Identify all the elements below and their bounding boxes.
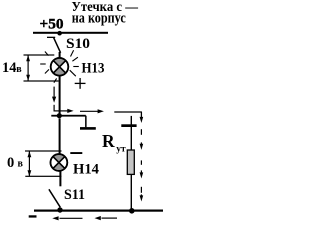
svg-text:ут: ут bbox=[116, 145, 126, 155]
wire Rut bottom lead bbox=[131, 174, 132, 210]
dimension bracket 0 v bbox=[25, 150, 62, 177]
wire return current arrow 2 bbox=[95, 216, 118, 220]
svg-text:Н14: Н14 bbox=[73, 162, 99, 178]
label minus terminal bbox=[29, 215, 37, 217]
wire H14 to S11 bbox=[59, 171, 61, 186]
wire Rut top lead bbox=[131, 116, 132, 150]
switch S10 blade bbox=[54, 38, 61, 53]
svg-text:на корпус: на корпус bbox=[72, 10, 126, 26]
resistor Rut body bbox=[127, 150, 134, 174]
wire return current arrow 1 bbox=[52, 216, 82, 220]
lamp H13 bbox=[51, 58, 69, 76]
node junction dot on +50 bus bbox=[57, 31, 62, 36]
svg-text:в: в bbox=[18, 159, 24, 170]
svg-text:0: 0 bbox=[7, 155, 14, 171]
node bottom junction dot S11 bbox=[57, 207, 62, 212]
wire H13 to midpoint junction bbox=[59, 76, 61, 113]
switch S10 fixed contact tick bbox=[47, 37, 55, 38]
svg-text:Н13: Н13 bbox=[82, 61, 105, 77]
wire bottom minus bus bbox=[34, 210, 163, 212]
svg-text:+50: +50 bbox=[40, 16, 64, 32]
wire current path top right segment bbox=[114, 112, 143, 123]
wire current path corner and right arrow 1 bbox=[54, 105, 74, 113]
wire S10 to lamp H13 bbox=[59, 52, 61, 58]
wire midpoint to chassis bbox=[51, 115, 86, 117]
node junction dot Rut on bus bbox=[129, 208, 135, 214]
ground chassis symbol right bbox=[121, 124, 136, 127]
wire current path arrow down beside H13 bbox=[52, 87, 56, 103]
wire current path right arrow 2 bbox=[80, 109, 104, 113]
svg-text:R: R bbox=[102, 131, 115, 151]
arrowheads on dashed leak path bbox=[140, 144, 144, 150]
svg-text:S11: S11 bbox=[64, 187, 85, 203]
label minus polarity mark bbox=[70, 152, 82, 154]
lamp H14 bbox=[51, 154, 68, 171]
svg-text:в: в bbox=[16, 64, 22, 75]
wire top bus +50 bbox=[33, 32, 108, 34]
dimension bracket 14 v bbox=[24, 54, 59, 81]
wire junction to lamp H14 bbox=[59, 118, 61, 154]
lamp H13 glow rays bbox=[40, 50, 79, 82]
wire dashed leak current path down bbox=[140, 129, 142, 197]
ground chassis symbol left bbox=[80, 127, 96, 130]
svg-text:14: 14 bbox=[2, 60, 17, 76]
node midpoint junction dot bbox=[57, 113, 62, 118]
switch S11 blade bbox=[49, 189, 60, 207]
label plus polarity mark bbox=[75, 78, 86, 89]
svg-text:S10: S10 bbox=[66, 36, 90, 52]
